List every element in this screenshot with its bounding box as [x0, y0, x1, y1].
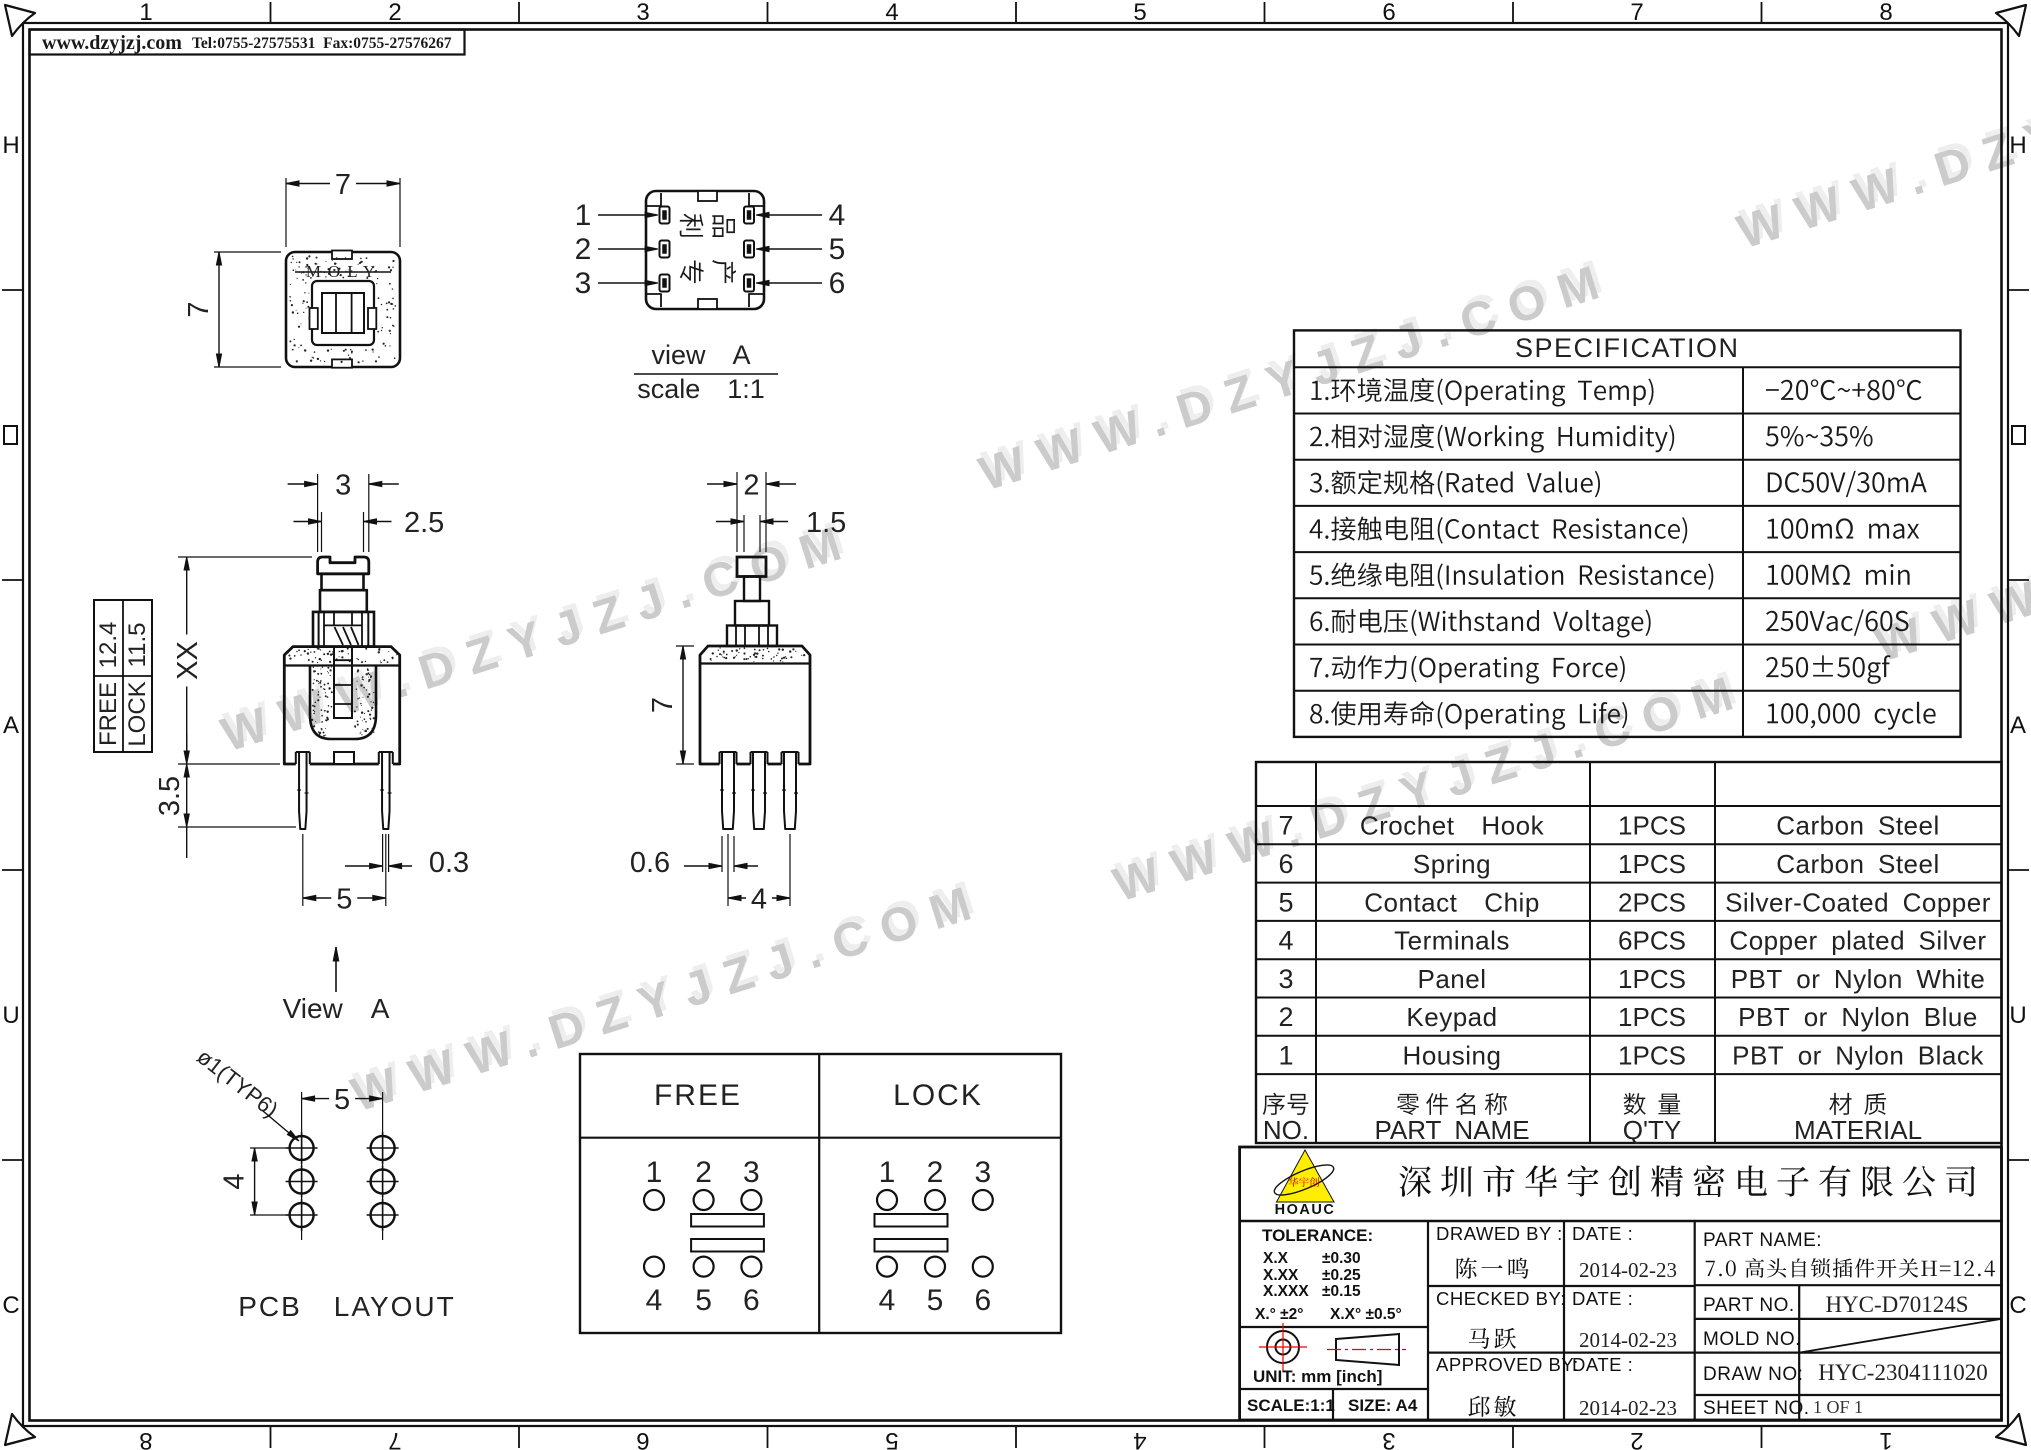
svg-text:±0.25: ±0.25: [1322, 1267, 1361, 1284]
svg-text:4: 4: [885, 0, 898, 26]
svg-text:5: 5: [885, 1427, 898, 1450]
svg-text:12.4: 12.4: [95, 622, 122, 669]
svg-text:2014-02-23: 2014-02-23: [1579, 1396, 1677, 1420]
svg-text:DRAWED BY :: DRAWED BY :: [1436, 1223, 1563, 1244]
svg-text:6PCS: 6PCS: [1618, 926, 1686, 956]
svg-text:Silver-Coated Copper: Silver-Coated Copper: [1725, 887, 1991, 917]
svg-text:DATE :: DATE :: [1572, 1354, 1633, 1375]
svg-text:SHEET NO.: SHEET NO.: [1703, 1398, 1810, 1419]
svg-text:1: 1: [646, 1156, 663, 1189]
svg-text:H: H: [2009, 132, 2026, 159]
svg-text:6: 6: [1278, 849, 1293, 879]
svg-text:PART NAME:: PART NAME:: [1703, 1230, 1822, 1251]
svg-text:1: 1: [139, 0, 152, 26]
svg-text:4: 4: [751, 883, 767, 915]
svg-text:3: 3: [335, 469, 351, 501]
svg-text:U: U: [2, 1002, 19, 1029]
svg-text:XX: XX: [172, 641, 204, 680]
svg-text:3: 3: [636, 0, 649, 26]
svg-text:Crochet Hook: Crochet Hook: [1360, 811, 1545, 841]
svg-text:2: 2: [743, 469, 759, 501]
svg-text:MOLY: MOLY: [306, 262, 382, 281]
svg-text:2: 2: [695, 1156, 712, 1189]
svg-text:LOCK: LOCK: [124, 681, 151, 746]
svg-text:SCALE:1:1: SCALE:1:1: [1247, 1396, 1335, 1415]
svg-text:0.3: 0.3: [429, 847, 469, 879]
svg-text:6: 6: [743, 1284, 760, 1317]
svg-text:3: 3: [1278, 964, 1293, 994]
svg-text:www.dzyjzj.com: www.dzyjzj.com: [42, 32, 182, 54]
svg-text:2014-02-23: 2014-02-23: [1579, 1258, 1677, 1282]
svg-text:8: 8: [1879, 0, 1892, 26]
svg-text:Housing: Housing: [1403, 1040, 1502, 1070]
svg-text:7: 7: [183, 301, 215, 317]
svg-text:4: 4: [879, 1284, 896, 1317]
svg-text:DATE :: DATE :: [1572, 1288, 1633, 1309]
svg-text:5: 5: [334, 1084, 350, 1116]
svg-text:5: 5: [695, 1284, 712, 1317]
svg-text:1PCS: 1PCS: [1618, 1002, 1686, 1032]
svg-text:UNIT: mm [inch]: UNIT: mm [inch]: [1253, 1367, 1382, 1386]
svg-text:1: 1: [1278, 1040, 1293, 1070]
svg-text:3: 3: [575, 267, 592, 300]
svg-text:6: 6: [974, 1284, 991, 1317]
svg-text:Carbon Steel: Carbon Steel: [1776, 849, 1940, 879]
svg-text:1PCS: 1PCS: [1618, 1040, 1686, 1070]
svg-text:4: 4: [219, 1173, 251, 1189]
svg-text:U: U: [2009, 1002, 2026, 1029]
svg-text:SPECIFICATION: SPECIFICATION: [1515, 333, 1740, 363]
svg-text:5: 5: [829, 233, 846, 266]
svg-text:6: 6: [829, 267, 846, 300]
svg-text:A: A: [3, 712, 19, 739]
svg-text:4: 4: [829, 199, 846, 232]
svg-text:2: 2: [1630, 1427, 1643, 1450]
svg-text:Spring: Spring: [1413, 849, 1491, 879]
svg-text:3: 3: [743, 1156, 760, 1189]
svg-text:7: 7: [1630, 0, 1643, 26]
svg-text:11.5: 11.5: [124, 623, 151, 668]
svg-text:FREE: FREE: [654, 1079, 742, 1112]
svg-text:SIZE: A4: SIZE: A4: [1348, 1396, 1418, 1415]
svg-text:FREE: FREE: [95, 682, 122, 746]
svg-text:7: 7: [388, 1427, 401, 1450]
svg-text:Carbon Steel: Carbon Steel: [1776, 811, 1940, 841]
svg-text:view A: view A: [651, 340, 750, 370]
svg-text:HOAUC: HOAUC: [1275, 1202, 1336, 1218]
svg-text:scale 1:1: scale 1:1: [637, 374, 765, 404]
svg-text:4: 4: [1133, 1427, 1146, 1450]
svg-text:4: 4: [646, 1284, 663, 1317]
svg-text:HYC-2304111020: HYC-2304111020: [1818, 1360, 1988, 1385]
svg-text:C: C: [2009, 1292, 2026, 1319]
svg-text:7: 7: [647, 697, 679, 713]
svg-text:CHECKED BY:: CHECKED BY:: [1436, 1288, 1566, 1309]
svg-text:2: 2: [1278, 1002, 1293, 1032]
svg-text:7: 7: [335, 169, 351, 201]
svg-text:1PCS: 1PCS: [1618, 811, 1686, 841]
svg-text:7: 7: [1278, 811, 1293, 841]
svg-text:6: 6: [1382, 0, 1395, 26]
svg-text:X.X: X.X: [1263, 1250, 1289, 1267]
svg-text:View A: View A: [283, 993, 390, 1024]
svg-text:±0.15: ±0.15: [1322, 1283, 1361, 1300]
svg-text:1PCS: 1PCS: [1618, 964, 1686, 994]
svg-text:TOLERANCE:: TOLERANCE:: [1262, 1226, 1373, 1245]
svg-text:2: 2: [388, 0, 401, 26]
svg-text:±0.30: ±0.30: [1322, 1250, 1361, 1267]
svg-text:6: 6: [636, 1427, 649, 1450]
svg-text:PCB LAYOUT: PCB LAYOUT: [238, 1291, 456, 1322]
svg-text:8: 8: [139, 1427, 152, 1450]
svg-text:X.X° ±0.5°: X.X° ±0.5°: [1330, 1306, 1402, 1323]
svg-text:5: 5: [1133, 0, 1146, 26]
svg-text:PBT or Nylon White: PBT or Nylon White: [1731, 964, 1986, 994]
svg-text:LOCK: LOCK: [893, 1079, 983, 1112]
svg-text:MOLD NO.: MOLD NO.: [1703, 1329, 1801, 1350]
svg-text:A: A: [2010, 712, 2026, 739]
svg-text:1: 1: [575, 199, 592, 232]
svg-text:HYC-D70124S: HYC-D70124S: [1825, 1292, 1968, 1317]
svg-text:1PCS: 1PCS: [1618, 849, 1686, 879]
svg-text:Terminals: Terminals: [1394, 926, 1510, 956]
svg-text:Q'TY: Q'TY: [1623, 1115, 1681, 1145]
svg-text:5: 5: [336, 883, 352, 915]
svg-text:DRAW NO:: DRAW NO:: [1703, 1364, 1803, 1385]
svg-text:Tel:0755-27575531 Fax:0755-275: Tel:0755-27575531 Fax:0755-27576267: [192, 35, 452, 52]
svg-text:2PCS: 2PCS: [1618, 887, 1686, 917]
svg-text:2: 2: [927, 1156, 944, 1189]
svg-text:PART NAME: PART NAME: [1374, 1115, 1529, 1145]
svg-text:Contact Chip: Contact Chip: [1364, 887, 1540, 917]
svg-text:C: C: [2, 1292, 19, 1319]
svg-text:2: 2: [575, 233, 592, 266]
svg-text:DATE :: DATE :: [1572, 1223, 1633, 1244]
svg-text:1.5: 1.5: [806, 507, 846, 539]
svg-text:1: 1: [879, 1156, 896, 1189]
svg-text:0.6: 0.6: [630, 847, 670, 879]
svg-text:1 OF 1: 1 OF 1: [1813, 1397, 1863, 1417]
svg-text:4: 4: [1278, 926, 1293, 956]
svg-text:PBT or Nylon Black: PBT or Nylon Black: [1732, 1040, 1984, 1070]
svg-text:PBT or Nylon Blue: PBT or Nylon Blue: [1738, 1002, 1978, 1032]
svg-text:MATERIAL: MATERIAL: [1794, 1115, 1922, 1145]
svg-text:X.° ±2°: X.° ±2°: [1255, 1306, 1303, 1323]
svg-text:3: 3: [1382, 1427, 1395, 1450]
svg-text:2014-02-23: 2014-02-23: [1579, 1328, 1677, 1352]
svg-text:3.5: 3.5: [154, 776, 186, 816]
svg-text:Panel: Panel: [1418, 964, 1487, 994]
svg-text:NO.: NO.: [1263, 1115, 1309, 1145]
svg-text:PART NO.: PART NO.: [1703, 1295, 1795, 1316]
svg-text:Keypad: Keypad: [1406, 1002, 1497, 1032]
svg-text:H: H: [2, 132, 19, 159]
svg-text:X.XXX: X.XXX: [1263, 1283, 1309, 1300]
svg-text:2.5: 2.5: [404, 507, 444, 539]
svg-text:APPROVED BY:: APPROVED BY:: [1436, 1354, 1579, 1375]
svg-text:X.XX: X.XX: [1263, 1267, 1299, 1284]
svg-text:5: 5: [1278, 887, 1293, 917]
svg-text:Copper plated Silver: Copper plated Silver: [1729, 926, 1986, 956]
svg-text:3: 3: [974, 1156, 991, 1189]
svg-text:5: 5: [927, 1284, 944, 1317]
svg-text:1: 1: [1879, 1427, 1892, 1450]
